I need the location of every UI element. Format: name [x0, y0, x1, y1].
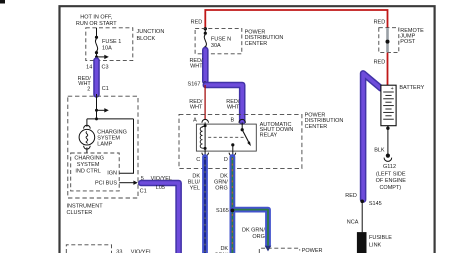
- svg-text:14: 14: [86, 64, 92, 70]
- svg-text:CENTER: CENTER: [245, 41, 268, 47]
- svg-text:(LEFT SIDE: (LEFT SIDE: [376, 172, 406, 178]
- svg-text:2: 2: [87, 86, 90, 92]
- svg-text:YEL: YEL: [190, 185, 200, 191]
- svg-text:NCA: NCA: [347, 219, 359, 225]
- svg-text:WHT: WHT: [190, 63, 203, 69]
- svg-text:LAMP: LAMP: [97, 142, 112, 148]
- svg-text:S165: S165: [216, 208, 229, 214]
- svg-text:DK: DK: [220, 246, 228, 252]
- svg-text:BLOCK: BLOCK: [137, 36, 156, 42]
- svg-text:CLUSTER: CLUSTER: [67, 210, 93, 216]
- svg-text:OF ENGINE: OF ENGINE: [376, 178, 407, 184]
- svg-text:RUN OR START: RUN OR START: [76, 21, 117, 27]
- svg-text:DK GRN/: DK GRN/: [242, 228, 265, 234]
- svg-text:CHARGING: CHARGING: [97, 129, 127, 135]
- svg-text:SYSTEM: SYSTEM: [77, 162, 100, 168]
- svg-text:C1: C1: [140, 189, 147, 195]
- svg-text:C1: C1: [102, 86, 109, 92]
- svg-text:BATTERY: BATTERY: [399, 85, 424, 91]
- svg-text:FUSE 1: FUSE 1: [102, 39, 121, 45]
- svg-text:S145: S145: [369, 201, 382, 207]
- svg-text:10A: 10A: [102, 45, 112, 51]
- svg-text:CENTER: CENTER: [305, 124, 328, 130]
- svg-text:C: C: [196, 157, 200, 163]
- svg-text:WHT: WHT: [190, 104, 203, 110]
- svg-text:FUSIBLE: FUSIBLE: [369, 235, 392, 241]
- svg-text:B: B: [231, 117, 235, 123]
- svg-text:VIO/YEL: VIO/YEL: [131, 250, 152, 253]
- svg-text:POST: POST: [400, 39, 416, 45]
- svg-text:IND CTRL: IND CTRL: [75, 168, 100, 174]
- svg-text:SYSTEM: SYSTEM: [97, 136, 120, 142]
- svg-text:30A: 30A: [211, 43, 221, 49]
- svg-text:POWER: POWER: [302, 248, 323, 253]
- svg-text:LINK: LINK: [369, 242, 382, 248]
- svg-text:INSTRUMENT: INSTRUMENT: [67, 204, 104, 210]
- svg-text:IGN: IGN: [107, 171, 117, 177]
- svg-text:RELAY: RELAY: [260, 132, 278, 138]
- svg-text:HOT IN OFF,: HOT IN OFF,: [80, 14, 112, 20]
- svg-text:VIO/YEL: VIO/YEL: [151, 176, 172, 182]
- svg-text:A: A: [193, 117, 197, 123]
- svg-text:RED: RED: [191, 19, 203, 25]
- svg-text:D: D: [224, 157, 228, 163]
- svg-text:RED: RED: [374, 60, 386, 66]
- svg-text:JUNCTION: JUNCTION: [137, 29, 165, 35]
- svg-text:L05: L05: [156, 185, 165, 191]
- svg-text:WHT: WHT: [227, 104, 240, 110]
- svg-text:PCI BUS: PCI BUS: [95, 181, 117, 187]
- svg-text:COMPT): COMPT): [379, 185, 401, 191]
- svg-text:BLK: BLK: [374, 147, 385, 153]
- svg-text:C3: C3: [102, 64, 109, 70]
- svg-text:33: 33: [116, 250, 122, 253]
- svg-text:G112: G112: [383, 164, 396, 170]
- svg-text:ORG: ORG: [252, 234, 265, 240]
- svg-text:CHARGING: CHARGING: [74, 156, 104, 162]
- svg-text:S167: S167: [188, 81, 201, 87]
- svg-text:ORG: ORG: [215, 185, 228, 191]
- svg-text:RED: RED: [374, 19, 386, 25]
- svg-text:+: +: [391, 86, 394, 92]
- svg-text:RED: RED: [345, 193, 357, 199]
- svg-text:5: 5: [141, 176, 144, 182]
- svg-text:FUSE N: FUSE N: [211, 36, 231, 42]
